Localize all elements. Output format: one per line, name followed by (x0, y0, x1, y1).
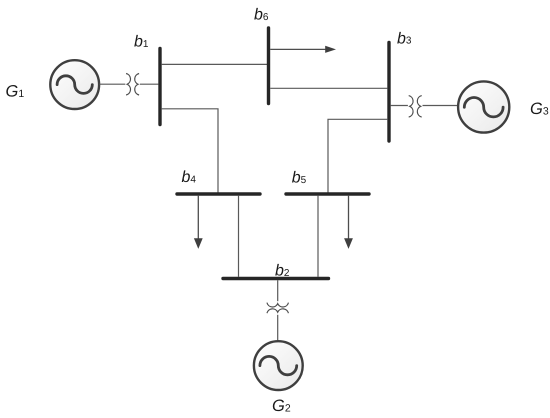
bus b6 (267, 28, 270, 104)
wire b2 to T2 (277, 280, 279, 301)
wire b1 to b4 (162, 109, 218, 193)
svg-text:G2: G2 (272, 397, 291, 415)
load arrow at bus b5 (344, 196, 353, 249)
wire T2 to G2 (277, 315, 279, 341)
wire b3 to b5 (328, 119, 387, 192)
bus b4 (177, 192, 260, 195)
transformer T2 (267, 303, 289, 314)
wire b1 to b6 (162, 63, 268, 65)
transformer T1 (126, 74, 139, 96)
svg-text:b3: b3 (397, 30, 412, 47)
svg-text:G3: G3 (530, 100, 549, 118)
svg-text:b4: b4 (182, 169, 197, 186)
wire b5 to b2 (317, 196, 319, 277)
generator G2 (254, 341, 303, 390)
load arrow at bus b4 (194, 196, 203, 249)
wire T3 to G3 (423, 105, 459, 107)
generator G3 (458, 81, 509, 132)
svg-text:b6: b6 (254, 7, 269, 24)
svg-text:b5: b5 (292, 169, 307, 186)
transformer T3 (409, 96, 422, 118)
load arrow at bus b6 (270, 46, 336, 53)
bus b2 (223, 277, 329, 280)
bus b5 (286, 192, 369, 195)
svg-text:b2: b2 (275, 262, 290, 279)
wire G1 to T1 (100, 83, 126, 85)
generator G1 (50, 60, 99, 109)
svg-text:G1: G1 (6, 83, 25, 101)
wire b6 to b3 (270, 87, 387, 89)
bus b1 (158, 49, 161, 125)
wire b4 to b2 (238, 196, 240, 277)
svg-text:b1: b1 (134, 34, 149, 51)
bus b3 (387, 43, 390, 142)
wire T1 to bus b1 (140, 83, 159, 85)
wire b3 to T3 (391, 105, 408, 107)
